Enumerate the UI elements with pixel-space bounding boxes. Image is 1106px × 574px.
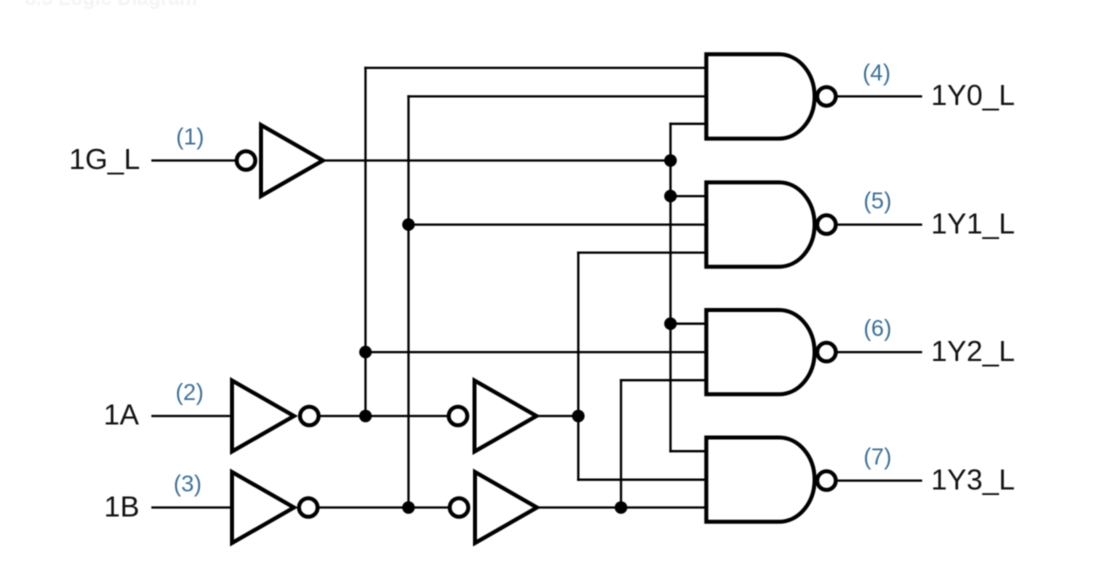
NAND gate U2 output bubble xyxy=(817,87,836,106)
inverter U8 (1B first stage) triangle xyxy=(232,472,294,543)
wire bus C vertical (G' net) xyxy=(669,124,671,451)
svg-text:(7): (7) xyxy=(864,444,892,470)
wire gate U5 pin1 elbow from bus C xyxy=(671,450,708,452)
wire 1A input xyxy=(153,415,233,417)
svg-text:(6): (6) xyxy=(864,315,892,341)
wire buffered A to gate U5 middle input xyxy=(578,479,707,481)
buffer U9 (1B second stage) input bubble xyxy=(450,498,469,517)
wire 1B input xyxy=(153,506,233,508)
inverter U6 (1A first stage) triangle xyxy=(232,381,294,452)
junction A' bus tap to gate U4 xyxy=(359,346,372,359)
svg-text:(2): (2) xyxy=(176,379,204,405)
wire buffered A to gate U3 bottom input xyxy=(578,251,707,253)
svg-text:1B: 1B xyxy=(104,492,139,524)
junction buffered A node xyxy=(572,410,585,423)
wire bus D vertical (buffered A net) xyxy=(577,253,579,480)
svg-text:(3): (3) xyxy=(174,471,202,497)
svg-text:8.3 Logic Diagram: 8.3 Logic Diagram xyxy=(25,0,197,10)
wire buffered B to gate U4 bottom input xyxy=(621,379,707,381)
wire gate U4 pin1 stub from bus C xyxy=(671,323,708,325)
svg-text:1Y3_L: 1Y3_L xyxy=(931,464,1015,496)
junction buffered B tap xyxy=(615,501,628,514)
NAND gate U3 output bubble xyxy=(817,215,836,234)
NAND gate U5 (1Y3) body xyxy=(706,438,814,522)
wire 1G inverter output to bus C xyxy=(323,159,671,161)
svg-text:1A: 1A xyxy=(104,400,140,432)
wire bus B vertical (B' net) xyxy=(407,96,409,507)
junction B' node on 1B line xyxy=(402,501,415,514)
svg-text:(5): (5) xyxy=(864,188,892,214)
wire B' feed to gate U2 middle input xyxy=(409,95,708,97)
buffer U7 (1A second stage) input bubble xyxy=(449,407,468,426)
wire 1A inverted segment xyxy=(321,415,448,417)
svg-text:1Y2_L: 1Y2_L xyxy=(931,336,1015,368)
wire gate U2 pin1 feed (A' to top NAND) xyxy=(366,67,708,69)
NAND gate U5 output bubble xyxy=(817,471,836,490)
wire 1B buffered segment to gate U5 xyxy=(537,506,707,508)
inverter U1 (1G_L) input bubble xyxy=(237,151,256,170)
wire 1A buffered segment xyxy=(537,415,579,417)
wire output 1Y2_L xyxy=(837,351,921,353)
NAND gate U2 (1Y0) body xyxy=(706,54,814,138)
buffer U7 triangle xyxy=(475,381,537,452)
svg-text:1G_L: 1G_L xyxy=(69,144,140,176)
junction G' to gate U4 pin1 xyxy=(664,317,677,330)
wire A' feed to gate U4 middle input xyxy=(366,351,708,353)
NAND gate U3 (1Y1) body xyxy=(706,182,814,266)
junction G' to gate U2 pin3 xyxy=(664,154,677,167)
wire output 1Y1_L xyxy=(837,223,921,225)
wire 1G_L input xyxy=(153,159,236,161)
svg-text:(1): (1) xyxy=(176,124,204,150)
wire gate U3 pin1 stub from bus C xyxy=(671,195,708,197)
svg-text:1Y1_L: 1Y1_L xyxy=(931,208,1015,240)
inverter U1 (1G_L) triangle xyxy=(261,125,323,196)
inverter U8 output bubble xyxy=(299,498,318,517)
wire bus E vertical (buffered B net) xyxy=(620,380,622,507)
wire bus A vertical (A' net) xyxy=(364,68,366,416)
wire gate U2 pin1 stub from bus C xyxy=(671,123,708,125)
junction B' tap to gate U3 xyxy=(402,218,415,231)
wire output 1Y0_L xyxy=(837,95,921,97)
wire output 1Y3_L xyxy=(837,479,921,481)
svg-text:1Y0_L: 1Y0_L xyxy=(931,80,1015,112)
inverter U6 output bubble xyxy=(300,407,319,426)
junction G' to gate U3 pin1 xyxy=(664,190,677,203)
NAND gate U4 (1Y2) body xyxy=(706,310,814,394)
wire 1B inverted segment xyxy=(320,506,449,508)
svg-text:(4): (4) xyxy=(863,59,891,85)
NAND gate U4 output bubble xyxy=(817,343,836,362)
junction A' node on 1A line xyxy=(359,410,372,423)
wire B' feed to gate U3 middle input xyxy=(409,223,708,225)
buffer U9 triangle xyxy=(475,472,537,543)
